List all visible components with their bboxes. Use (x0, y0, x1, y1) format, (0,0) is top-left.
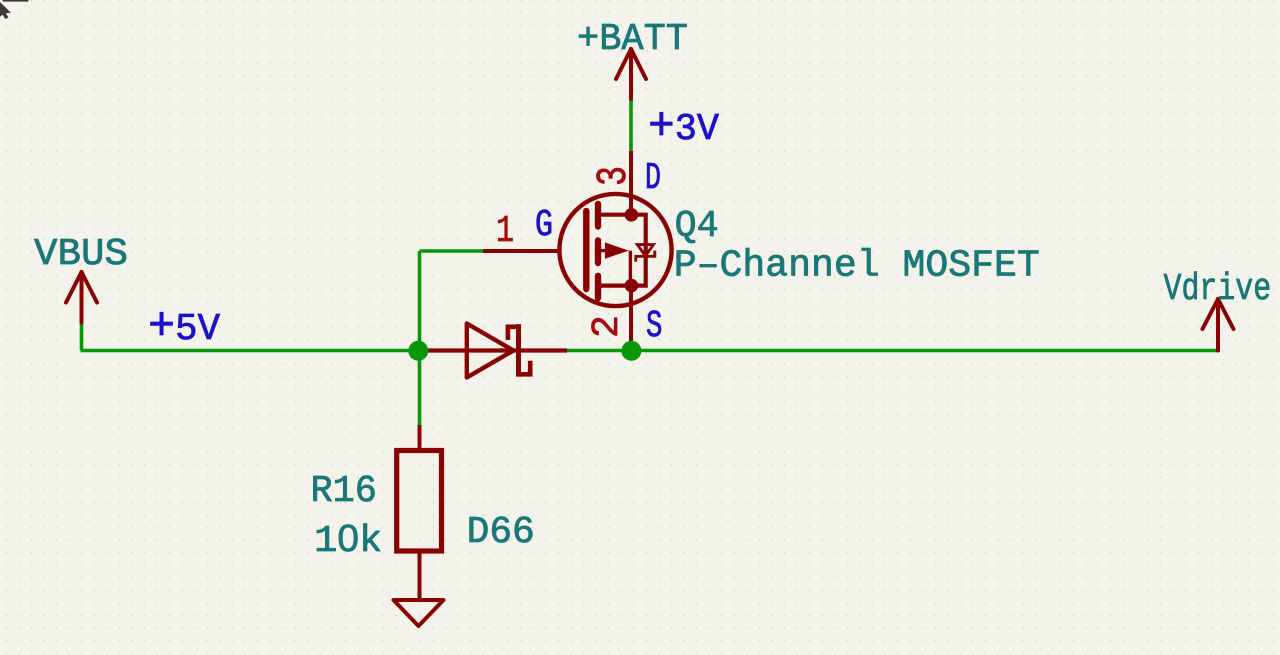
Q4 body circle (559, 194, 671, 306)
svg-text:10k: 10k (314, 518, 382, 563)
R16 top pin (418, 425, 422, 451)
wire: VBUS stem green part (80, 323, 84, 351)
R16 bottom pin (418, 551, 422, 600)
svg-text:Q4: Q4 (675, 205, 719, 248)
Q4 channel dashes (595, 204, 601, 298)
svg-text:+BATT: +BATT (577, 18, 688, 61)
wire: vertical from junction to resistor (418, 251, 422, 425)
svg-text:+5V: +5V (148, 301, 220, 353)
svg-text:S: S (646, 305, 662, 348)
Q4 source pin 2 (629, 286, 633, 351)
svg-text:2: 2 (586, 315, 629, 338)
svg-text:3: 3 (589, 166, 638, 186)
Q4 source arrow (601, 249, 607, 252)
svg-text:P–Channel MOSFET: P–Channel MOSFET (674, 245, 1040, 288)
Q4 internal junction dots (625, 208, 639, 222)
Q4 gate pin 1 (483, 249, 561, 253)
svg-text:G: G (535, 204, 553, 247)
svg-text:+3V: +3V (648, 101, 719, 153)
svg-text:D66: D66 (467, 511, 535, 554)
ground (394, 600, 444, 626)
power symbol VBUS (66, 272, 97, 323)
mouse cursor (0, 0, 28, 19)
Q4 drain pin 3 (629, 151, 633, 215)
resistor R16 (397, 425, 442, 600)
wire: gate horizontal green (420, 249, 484, 253)
svg-text:VBUS: VBUS (34, 233, 128, 276)
svg-text:D: D (645, 157, 661, 200)
svg-text:R16: R16 (311, 470, 377, 513)
svg-text:1: 1 (496, 210, 514, 253)
power symbol Vdrive (1203, 299, 1234, 351)
Q4 gate bar (583, 211, 589, 289)
Q4 drain internal stub (598, 215, 646, 286)
Q4 body diode (636, 245, 655, 262)
svg-text:Vdrive: Vdrive (1164, 268, 1272, 311)
wire: main horizontal net +5V/Vdrive (81, 349, 1219, 353)
diode (zener) symbol with pins (428, 324, 567, 378)
transistor Q4 P-Channel MOSFET (483, 151, 672, 351)
R16 body (397, 451, 442, 552)
power symbol +BATT (616, 49, 646, 99)
wire: +BATT to D green part (629, 99, 633, 151)
junction node 1 (408, 341, 428, 361)
junction node 2 (621, 341, 641, 361)
